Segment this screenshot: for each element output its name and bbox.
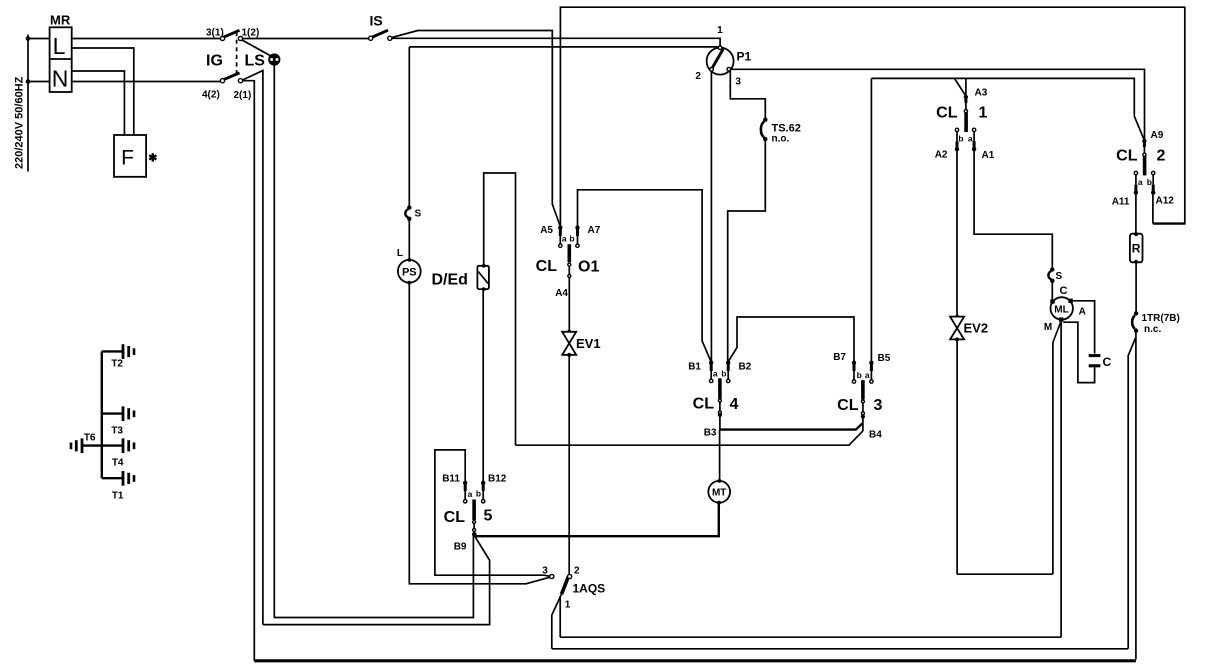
wire L from bus to MR <box>28 38 50 40</box>
bottom bus wire <box>254 659 1136 662</box>
wire N from MR to switch IG 4(2) <box>72 81 221 83</box>
earth terminal T4 <box>102 438 134 468</box>
svg-text:1TR(7B): 1TR(7B) <box>1142 313 1180 324</box>
wire L from MR to switch IG 3(1) <box>72 38 221 40</box>
svg-text:A5: A5 <box>540 225 553 236</box>
cam bar CL O1 <box>568 244 571 277</box>
svg-text:a: a <box>1138 177 1143 187</box>
svg-text:CL: CL <box>536 258 558 275</box>
changeover switch 1AQS <box>550 574 572 594</box>
cam contact CL O1 : pin A5 <box>558 225 562 247</box>
svg-text:N: N <box>52 66 69 92</box>
svg-text:T4: T4 <box>112 458 124 469</box>
svg-text:M: M <box>1044 322 1052 333</box>
svg-text:CL: CL <box>936 105 958 122</box>
svg-text:A4: A4 <box>555 288 568 299</box>
wire lamp LS down <box>273 65 275 617</box>
cam bar CL4 <box>718 378 722 417</box>
junction N tap <box>26 79 31 84</box>
wire B5 up to top rail <box>870 78 872 362</box>
svg-text:a: a <box>562 234 567 244</box>
svg-text:MT: MT <box>712 488 726 499</box>
thermal switch TS.62 n.o. <box>761 118 768 142</box>
rail B5 to A3 and A9 <box>871 78 1143 139</box>
svg-text:b: b <box>857 370 862 380</box>
svg-text:EV1: EV1 <box>576 336 601 351</box>
svg-text:P1: P1 <box>737 50 752 64</box>
terminal block MR <box>50 13 72 93</box>
thermal protector S (PS line) <box>405 205 411 221</box>
svg-text:2: 2 <box>1157 148 1166 165</box>
svg-text:CL: CL <box>837 397 859 414</box>
svg-text:4(2): 4(2) <box>202 90 220 101</box>
earth terminal T6 <box>71 433 102 454</box>
svg-text:b: b <box>1147 177 1152 187</box>
wire ML M diagonal down to EV2 rail <box>1053 323 1061 575</box>
svg-text:3: 3 <box>542 566 548 577</box>
svg-text:220/240V 50/60HZ: 220/240V 50/60HZ <box>14 76 26 169</box>
cam contact CL2 : pin A11 <box>1134 171 1138 195</box>
cam contact CL1 : pin A1 <box>972 128 976 151</box>
svg-text:B5: B5 <box>878 353 891 364</box>
wire P1 pin1 from PS line <box>409 46 718 48</box>
svg-text:A: A <box>1079 307 1086 318</box>
svg-text:4: 4 <box>730 396 739 413</box>
svg-text:B7: B7 <box>833 352 846 363</box>
cam contact CL4 : pin B2 <box>726 361 730 383</box>
svg-text:a: a <box>468 489 473 499</box>
wire 1(2) to switch IS <box>243 38 369 40</box>
resistor R <box>1130 232 1143 263</box>
svg-text:B12: B12 <box>488 474 507 485</box>
svg-text:1: 1 <box>979 105 988 122</box>
svg-text:5: 5 <box>484 508 493 525</box>
svg-text:2: 2 <box>695 71 701 82</box>
wire AQS pin1 to line A <box>559 596 561 637</box>
svg-text:O1: O1 <box>578 259 599 276</box>
svg-text:B3: B3 <box>704 428 717 439</box>
wire N from bus to MR <box>28 81 50 83</box>
svg-text:PS: PS <box>402 267 417 279</box>
svg-text:MR: MR <box>50 13 71 28</box>
svg-text:1AQS: 1AQS <box>573 582 606 596</box>
svg-text:S: S <box>415 209 422 220</box>
wire TR diagonal down to line B <box>1128 338 1135 649</box>
svg-text:CL: CL <box>1116 148 1138 165</box>
cam bar CL3 <box>861 380 865 418</box>
svg-text:3: 3 <box>874 397 883 414</box>
svg-text:F: F <box>121 147 134 170</box>
wire B3 down to MT <box>719 430 721 481</box>
wire PS line down from P1 pin1 rail <box>408 47 410 206</box>
svg-text:T3: T3 <box>111 426 123 437</box>
line B (AQS1 to TR) <box>552 648 1128 650</box>
mains voltage label 220/240V 50/60HZ <box>14 76 26 169</box>
svg-text:n.o.: n.o. <box>772 134 790 145</box>
svg-text:b: b <box>721 369 726 379</box>
switch IG pole 4(2)-2(1) <box>220 73 242 83</box>
node B9 <box>454 532 477 553</box>
wire P1 pin3 to A9 (top right rail) <box>731 69 1145 140</box>
svg-text:CL: CL <box>444 509 466 526</box>
star symbol next to F <box>149 153 156 161</box>
svg-text:LS: LS <box>245 53 266 70</box>
wire ML A to capacitor C <box>1073 301 1095 354</box>
svg-text:A11: A11 <box>1112 197 1130 208</box>
solenoid valve EV1 <box>562 330 576 357</box>
wire MT to B9 <box>474 503 719 537</box>
wire P1 pin2 down to B1 <box>710 71 712 363</box>
svg-text:3: 3 <box>735 77 741 88</box>
svg-text:3(1): 3(1) <box>206 28 224 39</box>
svg-text:n.c.: n.c. <box>1144 324 1161 335</box>
wire D/Ed down to B12 <box>482 289 484 483</box>
cam contact CL5 : pin B12 <box>481 481 485 503</box>
wire L tap to filter F <box>72 48 134 135</box>
svg-text:1: 1 <box>717 25 723 36</box>
wire top corner to heater D/Ed <box>484 173 516 445</box>
wire ML M straight down to line A <box>1060 322 1062 637</box>
svg-text:CL: CL <box>693 396 715 413</box>
lamp LS <box>268 53 280 65</box>
wire P1 pin3 branch to TS.62 <box>730 71 765 119</box>
svg-text:B2: B2 <box>739 362 752 373</box>
cam contact CL5 : box wire from B11 <box>435 450 552 577</box>
motor MT <box>708 479 730 505</box>
wire AQS pin1 to line B <box>552 594 562 649</box>
wire A1 over to motor ML <box>974 149 1052 268</box>
cam contact CL4 : pin B1 <box>709 361 713 383</box>
svg-text:ML: ML <box>1054 304 1068 315</box>
line A (AQS1 to ML M) <box>560 636 1061 638</box>
svg-text:A3: A3 <box>975 88 988 99</box>
svg-text:C: C <box>1103 355 1112 369</box>
wire A11 down to R <box>1135 193 1137 234</box>
cam bar CL1 <box>964 113 968 133</box>
wire B3 to B4 <box>720 423 863 430</box>
cam contact CL2 : pin A12 <box>1151 171 1155 195</box>
earth terminal T3 <box>102 406 134 436</box>
svg-text:A2: A2 <box>935 150 948 161</box>
svg-text:A1: A1 <box>982 150 995 161</box>
wire IS diagonal branch to A5 <box>392 31 561 227</box>
solenoid valve EV2 <box>950 315 964 342</box>
svg-text:L: L <box>397 248 403 259</box>
svg-text:L: L <box>53 33 66 59</box>
cam contact CL O1 : pin A7 <box>575 225 579 247</box>
svg-text:a: a <box>713 369 718 379</box>
cam contact CL2 : pin A9 <box>1142 139 1146 156</box>
svg-text:S: S <box>1056 271 1063 282</box>
svg-text:T6: T6 <box>84 433 96 444</box>
junction L tap <box>26 36 31 41</box>
wire EV1 to AQS pin 2 <box>568 355 570 575</box>
wire TR straight down to bottom bus <box>1135 332 1137 660</box>
svg-text:A9: A9 <box>1151 130 1164 141</box>
svg-text:A12: A12 <box>1156 196 1175 207</box>
svg-text:b: b <box>476 489 481 499</box>
svg-text:R: R <box>1132 242 1141 256</box>
svg-text:D/Ed: D/Ed <box>432 272 468 289</box>
svg-text:1: 1 <box>565 600 571 611</box>
cam contact CL5 : pin B11 <box>463 481 467 503</box>
filter F <box>114 135 146 177</box>
switch IS <box>369 30 392 40</box>
svg-text:a: a <box>865 370 870 380</box>
node B3 <box>704 415 720 439</box>
svg-text:2: 2 <box>574 566 580 577</box>
wire PS down to AQS pin 3 <box>409 283 552 584</box>
wire 2(1) diagonal branch down <box>243 71 263 625</box>
earth terminal T2 <box>102 344 134 369</box>
pressure switch motor PS <box>398 258 421 285</box>
wire S to ML terminal C <box>1051 281 1053 301</box>
heater element D/Ed <box>477 264 489 291</box>
wire TS.62 down to B2 <box>728 141 766 363</box>
svg-text:IS: IS <box>370 13 383 29</box>
earth terminal bus <box>101 351 103 478</box>
svg-text:IG: IG <box>206 53 223 70</box>
svg-text:C: C <box>1060 285 1068 297</box>
svg-text:b: b <box>958 134 963 144</box>
wire capacitor to ML M <box>1063 322 1094 382</box>
wire R down to TR <box>1135 262 1137 312</box>
svg-text:B11: B11 <box>442 474 460 485</box>
earth terminal T1 <box>102 471 134 502</box>
wire S to PS <box>408 219 410 260</box>
svg-text:B4: B4 <box>869 430 882 441</box>
svg-text:T2: T2 <box>111 359 123 370</box>
top border net A5-A12 <box>560 7 1184 226</box>
thermal protector S (ML) <box>1048 267 1054 283</box>
cam contact CL3 : pin B5 <box>869 361 873 384</box>
pressure switch P1 <box>707 46 734 75</box>
wire B9 diagonal down to 2(1) line <box>263 536 490 624</box>
mains supply vertical bus <box>27 35 29 172</box>
switch IG pole 3(1)-1(2) <box>220 30 242 40</box>
wire D/Ed rail to B4 <box>516 431 863 445</box>
wire 2(1) to bottom bus <box>243 81 255 661</box>
svg-text:EV2: EV2 <box>964 321 989 336</box>
wire A7 to B1 <box>578 190 712 362</box>
cam contact CL3 : pin B7 <box>852 361 856 384</box>
svg-text:a: a <box>968 134 973 144</box>
svg-text:B9: B9 <box>454 542 467 553</box>
svg-text:A7: A7 <box>588 225 601 236</box>
svg-text:b: b <box>569 234 574 244</box>
svg-text:T1: T1 <box>112 491 124 502</box>
wire IS to P1 pin 1 <box>392 38 720 47</box>
svg-text:1(2): 1(2) <box>242 28 260 39</box>
svg-text:B1: B1 <box>688 362 701 373</box>
wire A4 to EV1 <box>568 277 570 332</box>
capacitor C <box>1089 356 1101 366</box>
wire B7 up over to B2 <box>728 317 854 363</box>
wire B9 straight down to lamp line <box>274 534 475 617</box>
thermal switch 1TR(7B) n.c. <box>1132 311 1138 333</box>
motor ML <box>1050 297 1073 322</box>
mechanical link IG (dashed) <box>236 32 238 76</box>
wire EV2 down to M rail <box>956 339 958 574</box>
svg-text:2(1): 2(1) <box>234 90 252 101</box>
cam contact CL1 : pin A2 <box>955 128 959 151</box>
wire M rail (EV2 to ML) <box>957 573 1053 575</box>
cam bar CL2 <box>1143 156 1147 175</box>
wire 1(2) to lamp LS <box>242 40 270 56</box>
cam bar CL5 <box>473 500 476 535</box>
wire A2 down to EV2 <box>956 149 958 316</box>
node B4 <box>863 417 882 441</box>
wire N tap to filter F <box>72 71 125 135</box>
cam contact CL1 : pin A3 <box>964 95 968 113</box>
